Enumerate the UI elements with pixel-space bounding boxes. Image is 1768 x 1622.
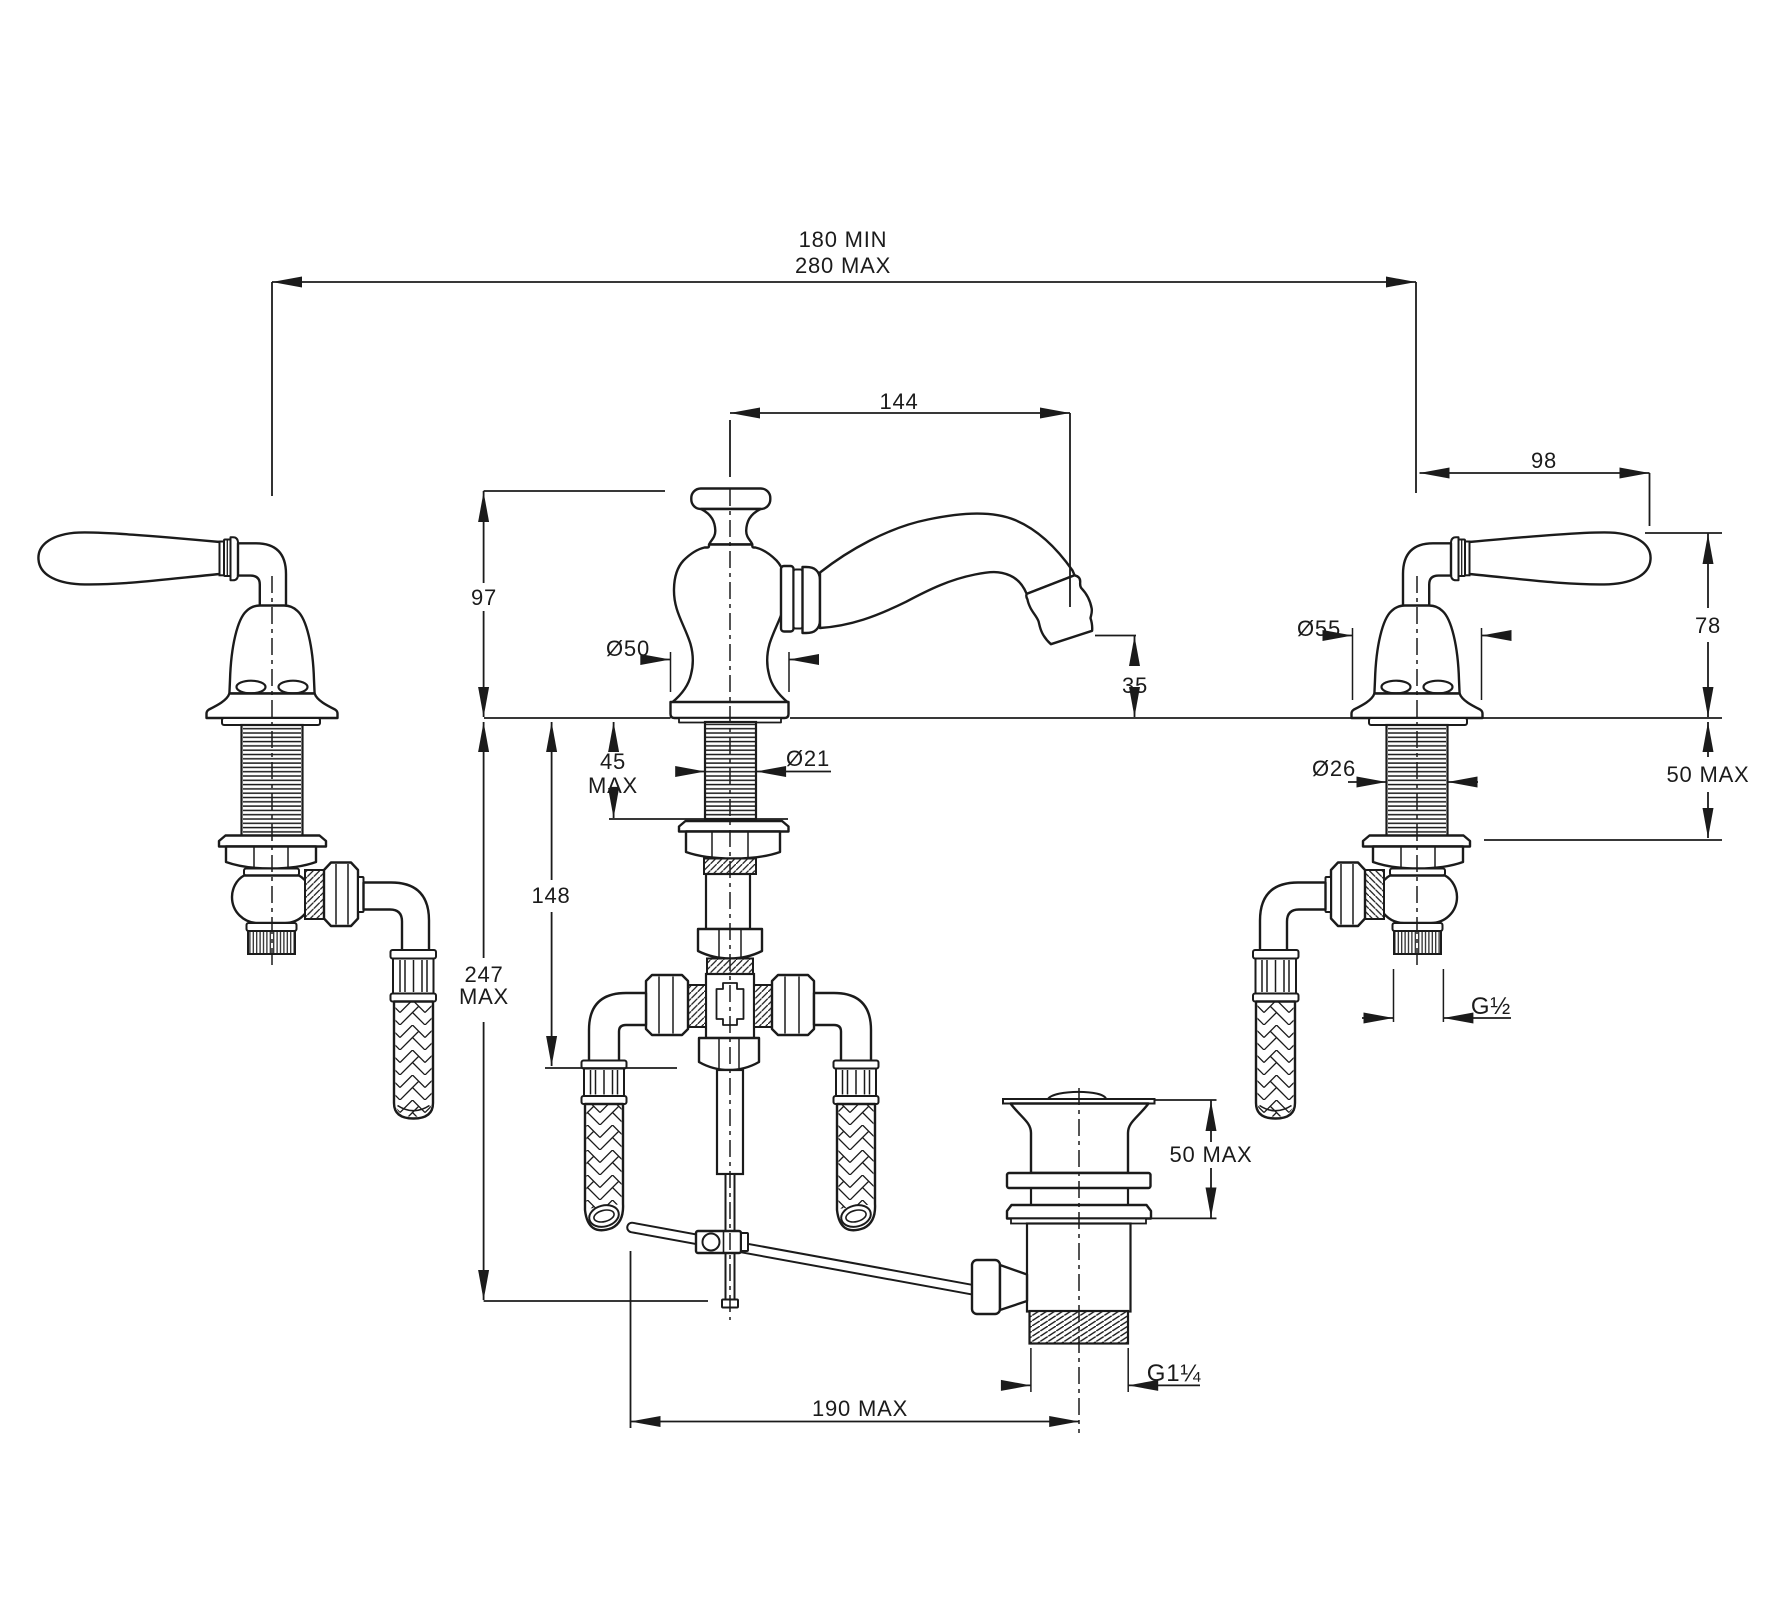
svg-text:97: 97 [471, 585, 497, 610]
svg-text:280 MAX: 280 MAX [795, 253, 891, 278]
svg-text:50 MAX: 50 MAX [1666, 762, 1749, 787]
svg-text:Ø26: Ø26 [1312, 756, 1356, 781]
svg-text:MAX: MAX [588, 773, 638, 798]
svg-text:Ø21: Ø21 [786, 746, 830, 771]
svg-text:148: 148 [531, 883, 570, 908]
svg-text:G1¼: G1¼ [1147, 1360, 1202, 1387]
svg-text:35: 35 [1122, 673, 1148, 698]
svg-text:78: 78 [1695, 613, 1721, 638]
svg-text:50 MAX: 50 MAX [1169, 1142, 1252, 1167]
svg-text:180 MIN: 180 MIN [799, 227, 888, 252]
svg-text:45: 45 [600, 749, 626, 774]
svg-text:MAX: MAX [459, 984, 509, 1009]
svg-text:144: 144 [879, 389, 918, 414]
svg-text:98: 98 [1531, 448, 1557, 473]
svg-text:G½: G½ [1471, 993, 1511, 1020]
svg-text:190 MAX: 190 MAX [812, 1396, 908, 1421]
